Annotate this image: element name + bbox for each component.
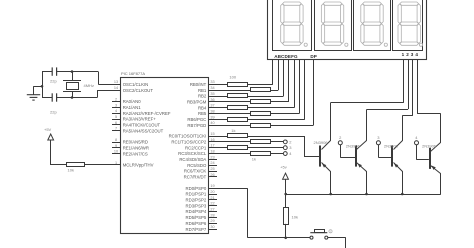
resistor R3 100 bbox=[228, 94, 248, 98]
transistor Q2 2N3906 bbox=[346, 110, 367, 195]
svg-text:10k: 10k bbox=[68, 167, 74, 172]
wire to SW1 bbox=[286, 237, 310, 239]
svg-text:33: 33 bbox=[210, 80, 214, 84]
svg-text:RD7/PSP7: RD7/PSP7 bbox=[186, 227, 207, 232]
chip left pin stubs and numbers bbox=[112, 80, 121, 165]
resistor R11 1k bbox=[228, 146, 248, 150]
wire RC1 to node 2 bbox=[209, 141, 284, 143]
svg-text:21: 21 bbox=[210, 196, 214, 200]
svg-text:22p: 22p bbox=[50, 78, 57, 83]
+5V supply symbol (rail) bbox=[280, 164, 288, 194]
node 4 terminal (from RC3) bbox=[283, 151, 292, 156]
svg-text:34: 34 bbox=[210, 86, 214, 90]
wire display digit 1 pin to Q1 collector bbox=[331, 59, 404, 103]
display segment pin labels ABCDEFG DP bbox=[274, 54, 317, 59]
svg-text:2N3906: 2N3906 bbox=[346, 143, 361, 148]
svg-text:MCLR/Vpp/THV: MCLR/Vpp/THV bbox=[123, 163, 154, 168]
resistor R1 100 bbox=[228, 75, 248, 87]
svg-text:RC0/T1OSO/T1CKI: RC0/T1OSO/T1CKI bbox=[169, 134, 207, 139]
crystal X1 4MHz bbox=[63, 72, 94, 98]
svg-text:RC7/RX/DT: RC7/RX/DT bbox=[184, 175, 207, 180]
svg-text:RA3/AN3/VREF+: RA3/AN3/VREF+ bbox=[123, 117, 157, 122]
svg-text:25: 25 bbox=[210, 167, 214, 171]
svg-text:2: 2 bbox=[115, 97, 117, 101]
push button SW1 bbox=[310, 230, 332, 240]
svg-text:100: 100 bbox=[229, 75, 236, 80]
wire R13 to MCLR pin bbox=[84, 164, 120, 166]
svg-text:RB5: RB5 bbox=[198, 111, 207, 116]
svg-text:RA0/AN0: RA0/AN0 bbox=[123, 99, 142, 104]
svg-text:OSC1/CLKIN: OSC1/CLKIN bbox=[123, 82, 149, 87]
node 2 terminal (Q2 base) bbox=[338, 135, 355, 157]
wire RB1 to display segment pin bbox=[209, 59, 279, 90]
svg-text:38: 38 bbox=[210, 109, 214, 113]
svg-text:35: 35 bbox=[210, 92, 214, 96]
svg-text:3: 3 bbox=[377, 135, 380, 140]
svg-text:1k: 1k bbox=[231, 128, 235, 133]
svg-text:8: 8 bbox=[115, 138, 117, 142]
wire RB6 to display segment pin bbox=[209, 59, 305, 119]
wire +5V to R13 bbox=[51, 164, 67, 166]
svg-text:2N3906: 2N3906 bbox=[314, 140, 329, 145]
transistor Q1 2N3906 bbox=[314, 103, 331, 195]
svg-text:1: 1 bbox=[330, 230, 332, 234]
resistor R13 10k bbox=[67, 163, 85, 173]
junction node ground tap bbox=[41, 85, 44, 88]
svg-text:PIC 16F877A: PIC 16F877A bbox=[121, 71, 145, 76]
svg-text:RB3/PGM: RB3/PGM bbox=[187, 99, 207, 104]
wire RB5 to display segment pin bbox=[209, 59, 300, 113]
svg-text:7: 7 bbox=[115, 127, 117, 131]
svg-text:9: 9 bbox=[115, 144, 117, 148]
wire RB0 to display segment pin bbox=[209, 59, 273, 84]
resistor R7 100 bbox=[228, 118, 248, 122]
svg-text:RA4/T0CKI/C1OUT: RA4/T0CKI/C1OUT bbox=[123, 123, 161, 128]
svg-text:40: 40 bbox=[210, 121, 214, 125]
7-seg digit 4 cell bbox=[393, 0, 423, 51]
resistor R9 1k bbox=[228, 128, 248, 138]
svg-text:RB0/INT: RB0/INT bbox=[190, 82, 207, 87]
svg-text:DP: DP bbox=[310, 54, 317, 59]
chip right pin names bbox=[169, 82, 207, 232]
wire RB7 to display segment pin bbox=[209, 59, 314, 125]
svg-text:ABCDEFG: ABCDEFG bbox=[274, 54, 298, 59]
svg-text:27: 27 bbox=[210, 208, 214, 212]
svg-text:RD6/PSP6: RD6/PSP6 bbox=[186, 221, 207, 226]
display digit pin labels 1234 bbox=[402, 52, 420, 57]
wire OSC1 net (top) bbox=[42, 72, 121, 85]
PIC16F877A microcontroller U1 bbox=[121, 71, 209, 233]
wire R14 to button net bbox=[285, 224, 287, 238]
wire RD0 to button net bbox=[209, 188, 286, 238]
junction node crystal top bbox=[71, 70, 74, 73]
node 2 terminal (from RC1) bbox=[283, 139, 292, 144]
svg-text:39: 39 bbox=[210, 115, 214, 119]
svg-text:23: 23 bbox=[210, 155, 214, 159]
wire SW1 to bottom right bbox=[328, 238, 346, 248]
node 4 terminal (Q4 base) bbox=[415, 135, 429, 160]
wire display digit 3 pin to Q3 collector bbox=[402, 59, 412, 115]
svg-text:29: 29 bbox=[210, 219, 214, 223]
svg-text:4: 4 bbox=[415, 135, 418, 140]
junction rail left bbox=[284, 193, 287, 196]
svg-text:3: 3 bbox=[289, 145, 292, 150]
svg-text:+5V: +5V bbox=[44, 127, 52, 132]
wire display digit 2 pin to Q2 collector bbox=[367, 59, 409, 109]
svg-text:RC1/T1OSI/CCP2: RC1/T1OSI/CCP2 bbox=[171, 139, 206, 144]
svg-text:20: 20 bbox=[210, 190, 214, 194]
svg-text:+5v: +5v bbox=[280, 164, 287, 169]
svg-text:RC6/TX/CK: RC6/TX/CK bbox=[184, 169, 207, 174]
svg-text:RD1/PSP1: RD1/PSP1 bbox=[186, 192, 207, 197]
svg-text:RE1/AN6/WR: RE1/AN6/WR bbox=[123, 145, 149, 150]
wire RB4 to display segment pin bbox=[209, 59, 295, 107]
svg-text:3: 3 bbox=[115, 103, 117, 107]
svg-text:RE0/AN5/RD: RE0/AN5/RD bbox=[123, 140, 148, 145]
chip right pin stubs and numbers bbox=[209, 80, 218, 229]
capacitor C2 22p bbox=[50, 93, 57, 114]
svg-text:1234: 1234 bbox=[402, 52, 420, 57]
transistor Q4 2N3906 bbox=[422, 114, 441, 195]
wire RC0 to Q1 base bbox=[209, 136, 320, 157]
node 3 terminal (Q3 base) bbox=[376, 135, 391, 157]
resistor R6 100 bbox=[251, 112, 271, 116]
resistor R14 10k bbox=[284, 208, 298, 225]
svg-text:18: 18 bbox=[210, 149, 214, 153]
svg-text:4: 4 bbox=[115, 109, 117, 113]
7-seg digit 1 cell bbox=[273, 0, 312, 51]
display DIS1 outer box bbox=[268, 0, 427, 60]
svg-text:24: 24 bbox=[210, 161, 214, 165]
7-seg digit 3 cell bbox=[354, 0, 391, 51]
resistor R2 100 bbox=[251, 88, 271, 92]
wire OSC2 net (bottom) bbox=[42, 90, 121, 97]
wire +5V rail bbox=[286, 194, 441, 196]
svg-text:2: 2 bbox=[339, 135, 342, 140]
svg-text:RE2/AN7/CS: RE2/AN7/CS bbox=[123, 151, 148, 156]
svg-text:RD5/PSP5: RD5/PSP5 bbox=[186, 215, 207, 220]
svg-text:10k: 10k bbox=[292, 215, 298, 220]
wire RB3 to display segment pin bbox=[209, 59, 289, 101]
wire left vertical between caps bbox=[42, 72, 44, 98]
svg-text:RB2: RB2 bbox=[198, 94, 207, 99]
resistor R4 100 bbox=[251, 100, 271, 104]
+5V supply symbol (MCLR) bbox=[44, 127, 54, 165]
junction Q3 emitter bbox=[401, 193, 404, 196]
svg-text:2N3906: 2N3906 bbox=[384, 143, 399, 148]
node 3 terminal (from RC2) bbox=[283, 145, 292, 150]
wire display digit 4 pin to Q4 collector bbox=[417, 59, 440, 114]
svg-text:15: 15 bbox=[210, 132, 214, 136]
junction node crystal bottom bbox=[71, 96, 74, 99]
svg-text:4MHz: 4MHz bbox=[84, 83, 94, 88]
svg-text:RB7/PGD: RB7/PGD bbox=[187, 123, 206, 128]
svg-text:22p: 22p bbox=[50, 110, 57, 115]
svg-text:RD3/PSP3: RD3/PSP3 bbox=[186, 203, 207, 208]
svg-text:RD4/PSP4: RD4/PSP4 bbox=[186, 209, 207, 214]
svg-text:13: 13 bbox=[114, 80, 118, 84]
resistor R5 100 bbox=[228, 106, 248, 110]
svg-text:RA5/AN4/SS/C2OUT: RA5/AN4/SS/C2OUT bbox=[123, 128, 164, 133]
ground symbol bbox=[27, 86, 42, 100]
chip left pin names bbox=[123, 82, 171, 168]
svg-text:RA1/AN1: RA1/AN1 bbox=[123, 105, 142, 110]
wire RC2 to node 3 bbox=[209, 147, 284, 149]
svg-text:RC4/SDI/SDA: RC4/SDI/SDA bbox=[179, 157, 206, 162]
transistor Q3 2N3906 bbox=[384, 116, 403, 195]
svg-text:26: 26 bbox=[210, 173, 214, 177]
svg-text:1k: 1k bbox=[252, 157, 256, 162]
svg-text:5: 5 bbox=[115, 115, 117, 119]
svg-text:RB4: RB4 bbox=[198, 105, 207, 110]
svg-text:2N3906: 2N3906 bbox=[422, 143, 437, 148]
junction Q2 emitter bbox=[365, 193, 368, 196]
svg-text:RB6/PGC: RB6/PGC bbox=[187, 117, 206, 122]
junction button net bbox=[284, 237, 287, 240]
junction Q1 emitter bbox=[329, 193, 332, 196]
resistor R8 100 bbox=[251, 124, 271, 128]
svg-text:14: 14 bbox=[114, 86, 118, 90]
svg-text:RB1: RB1 bbox=[198, 88, 207, 93]
wire RC3 to node 4 bbox=[209, 153, 284, 155]
wire RB2 to display segment pin bbox=[209, 59, 284, 96]
svg-text:OSC2/CLKOUT: OSC2/CLKOUT bbox=[123, 88, 154, 93]
svg-text:2: 2 bbox=[289, 139, 292, 144]
svg-text:RC3/SCK/SCL: RC3/SCK/SCL bbox=[178, 151, 207, 156]
svg-text:4: 4 bbox=[289, 151, 292, 156]
svg-text:22: 22 bbox=[210, 202, 214, 206]
svg-text:6: 6 bbox=[115, 121, 117, 125]
svg-text:RA2/AN2/VREF-/CVREF: RA2/AN2/VREF-/CVREF bbox=[123, 111, 171, 116]
capacitor C1 22p bbox=[50, 67, 57, 83]
svg-text:RD0/PSP0: RD0/PSP0 bbox=[186, 186, 207, 191]
resistor R10 1k bbox=[251, 140, 271, 144]
svg-text:RC2/CCP1: RC2/CCP1 bbox=[185, 145, 207, 150]
svg-text:19: 19 bbox=[210, 184, 214, 188]
svg-text:10: 10 bbox=[114, 150, 118, 154]
7-seg digit 2 cell bbox=[315, 0, 352, 51]
resistor R12 1k bbox=[251, 152, 271, 162]
svg-text:30: 30 bbox=[210, 225, 214, 229]
svg-text:28: 28 bbox=[210, 213, 214, 217]
wire rail to R14 bbox=[285, 194, 287, 207]
svg-text:RC5/SDO: RC5/SDO bbox=[187, 163, 207, 168]
svg-text:RD2/PSP2: RD2/PSP2 bbox=[186, 198, 207, 203]
